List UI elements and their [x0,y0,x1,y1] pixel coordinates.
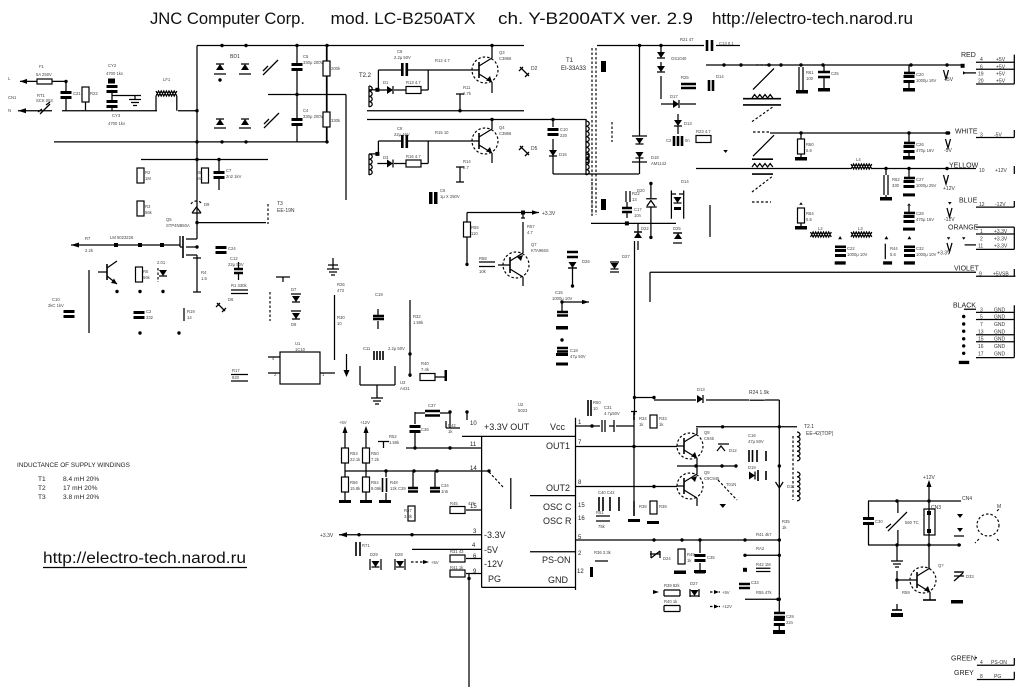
svg-text:BLACK: BLACK [953,303,976,310]
svg-text:10: 10 [470,421,477,427]
svg-text:GREEN: GREEN [951,656,976,663]
svg-text:D3: D3 [383,155,389,160]
svg-text:10: 10 [979,168,985,174]
connector WHITE -5V [955,129,1014,139]
svg-text:R42 1M: R42 1M [756,562,771,567]
svg-text:C29: C29 [786,614,794,619]
svg-text:1000μ 10V: 1000μ 10V [552,296,573,301]
svg-text:D1: D1 [383,80,389,85]
svg-text:6: 6 [980,64,983,70]
svg-text:22.1k: 22.1k [350,457,361,462]
svg-text:INDUCTANCE OF SUPPLY WINDINGS: INDUCTANCE OF SUPPLY WINDINGS [17,462,130,469]
wire fan bottom [868,544,961,546]
diode D20 [637,182,657,239]
svg-text:330: 330 [892,183,900,188]
zener D9 [191,201,210,213]
svg-text:U2: U2 [518,402,524,407]
svg-text:C21: C21 [73,91,81,96]
capacitor C5 330u 200V [292,44,324,96]
svg-text:20: 20 [978,79,984,85]
connector GREY PG [954,670,1014,680]
resistor R47 3.3k [404,506,415,521]
svg-text:LM 5023226: LM 5023226 [110,235,134,240]
resistor R34 1k [631,412,647,428]
capacitor C39 [398,471,418,492]
svg-text:4.7μ50V: 4.7μ50V [604,411,620,416]
resistor R39b 82k [653,583,681,596]
resistor R50 7.2k [363,440,380,463]
wire thermistor gnd [891,545,903,567]
capacitor C30 [863,501,883,545]
capacitor CY2 [106,63,124,93]
connector YELLOW +12V [949,163,1014,175]
resistor R33 1k [650,415,667,428]
svg-text:OSC C: OSC C [543,502,572,512]
capacitor C32 1000u 10V [904,246,937,265]
svg-text:16: 16 [978,344,984,350]
svg-text:2n2 1kV: 2n2 1kV [226,174,242,179]
svg-text:1M: 1M [145,176,151,181]
resistor R54 8.06 [363,477,383,500]
diode D27 [610,254,630,272]
svg-text:D24: D24 [663,556,671,561]
svg-text:56k: 56k [143,275,151,280]
svg-text:R61: R61 [806,70,814,75]
capacitor C27 1000u 25V [903,169,937,197]
diode D7 [291,287,301,302]
svg-text:14: 14 [187,315,192,320]
svg-text:56k: 56k [145,210,153,215]
resistor R31 [450,549,482,562]
svg-text:CY2: CY2 [108,63,117,68]
svg-text:9: 9 [979,271,982,277]
svg-text:T3: T3 [277,201,283,207]
svg-text:T3: T3 [38,494,46,501]
svg-text:15.8k: 15.8k [350,486,361,491]
rail +5VSB violet [650,272,976,302]
svg-text:470μ 16V: 470μ 16V [916,217,934,222]
svg-text:R57: R57 [527,224,535,229]
svg-text:13: 13 [978,330,984,336]
capacitor C15 1000u 10V [552,284,589,329]
svg-text:R31 43: R31 43 [450,549,464,554]
connector RED +5V [961,52,1015,85]
probe -12V [944,202,955,223]
capacitor C19 [373,292,384,329]
svg-text:R4: R4 [201,270,207,275]
resistor R12 [435,58,450,63]
svg-text:OUT1: OUT1 [546,441,570,451]
diode D17 [661,94,696,108]
resistor R17 820 [231,368,248,381]
svg-text:Q7: Q7 [531,242,537,247]
svg-text:PS-ON: PS-ON [991,660,1007,666]
capacitor C36 [410,425,430,448]
svg-text:L4: L4 [856,157,861,162]
diode D22 [634,223,649,250]
capacitor C12 22u 50V [228,256,244,280]
winding T3 sec [592,182,606,218]
svg-text:ORANGE: ORANGE [948,225,979,232]
resistor R25 [681,75,696,88]
svg-text:7: 7 [980,322,983,328]
svg-text:D13: D13 [684,121,692,126]
svg-text:CN1: CN1 [8,95,17,100]
wire top rail [197,45,524,47]
svg-text:8.06k: 8.06k [371,486,382,491]
svg-text:R48: R48 [390,480,398,485]
wire gate [71,244,180,246]
svg-text:D12: D12 [729,448,737,453]
svg-text:Q3: Q3 [499,50,505,55]
wire pin11 [406,447,482,449]
svg-text:R56: R56 [350,480,358,485]
svg-text:C8: C8 [397,126,403,131]
svg-text:1: 1 [980,229,983,235]
svg-text:C19: C19 [375,292,383,297]
svg-text:Q4: Q4 [499,125,505,130]
resistor R5 56k [136,267,151,282]
diode D11 [776,482,796,489]
svg-text:+3.3V: +3.3V [994,236,1008,242]
svg-text:R13 4.7: R13 4.7 [406,80,421,85]
diode D29 [370,552,381,570]
svg-text:AM1142: AM1142 [651,161,667,166]
node +3.3V sense [532,210,556,217]
svg-text:Q8: Q8 [704,430,710,435]
junction dots +12V rail [884,167,948,170]
resistor R15 [435,130,449,135]
diode D23 [291,311,301,327]
resistor R19 [184,308,195,321]
svg-text:D22: D22 [641,226,649,231]
capacitor C17 10n [622,202,642,218]
svg-text:C15: C15 [555,290,563,295]
connector BLUE -12V [959,198,1014,209]
resistor network RA2 [743,546,781,557]
junction arrows orange [838,236,911,239]
resistor R55 11 [464,213,480,265]
svg-text:+3.3V: +3.3V [320,533,334,539]
svg-text:+3.3V: +3.3V [542,211,556,217]
transistor Q7 KTA966S [498,222,549,286]
marks CN4 pins [954,514,964,536]
capacitor C18 47u 50V [556,338,586,365]
capacitor C25 [818,65,839,92]
svg-text:R3: R3 [145,204,151,209]
svg-text:LF1: LF1 [163,77,171,82]
svg-text:RED: RED [961,52,976,59]
svg-text:OUT2: OUT2 [546,483,570,493]
svg-text:11: 11 [470,442,477,448]
svg-text:GND: GND [994,322,1006,328]
resistor R35 1k [782,519,790,530]
svg-text:+5V: +5V [722,590,730,595]
svg-text:R33: R33 [659,416,667,421]
svg-text:D29: D29 [370,552,378,557]
arrow mark [344,354,350,377]
svg-text:BD1: BD1 [230,54,240,60]
svg-text:D11: D11 [787,484,795,489]
pin1 wire + capacitor C35 [576,420,635,432]
diode D1 [377,80,406,94]
svg-text:8.4 mH 20%: 8.4 mH 20% [63,476,99,483]
connector ORANGE +3.3V [948,225,1014,250]
rail -5V [770,132,949,134]
probe +12V fan [923,475,935,501]
svg-text:GND: GND [994,308,1006,314]
svg-text:Q5: Q5 [166,217,172,222]
svg-text:3: 3 [980,133,983,139]
svg-text:L2: L2 [818,226,823,231]
resistor R64 5.6 [795,202,814,229]
transistor T01N dashes [718,480,737,508]
wire divider row [345,463,490,477]
svg-text:http://electro-tech.narod.ru: http://electro-tech.narod.ru [43,550,246,567]
probe +5V [944,70,954,83]
ground bars mid [674,563,705,574]
dashed net arrows [411,560,439,565]
zener D30 [650,551,671,561]
svg-text:R38: R38 [639,504,647,509]
svg-text:4700 1kv: 4700 1kv [106,71,124,76]
capacitor C41 [356,542,370,556]
transistor Q9 C945 [677,466,720,506]
rail +12V yellow [696,168,976,170]
diode D3 [377,155,406,168]
svg-text:D27: D27 [690,581,698,586]
wire drain to T3 [197,222,266,224]
svg-text:GS1040: GS1040 [671,56,687,61]
svg-text:U3: U3 [400,380,406,385]
resistor R33 7.4k [420,361,447,381]
rectifier block +12V [723,132,774,174]
resistor R9 200k [323,46,341,95]
svg-text:GND: GND [994,330,1006,336]
svg-text:2.01: 2.01 [157,260,166,265]
svg-text:R34: R34 [639,416,647,421]
svg-text:C6: C6 [440,188,446,193]
svg-text:C36: C36 [421,427,429,432]
svg-text:1000μ 25V: 1000μ 25V [916,183,937,188]
wire pin4 -5V [412,548,482,550]
svg-text:-12V: -12V [484,559,503,569]
svg-text:R2: R2 [145,170,151,175]
resistor R16 [406,141,428,167]
resistor R14 2.7 [456,159,471,182]
resistor R4 1.5 [193,258,207,292]
svg-text:R21 47: R21 47 [680,37,694,42]
wire pin3 -3.3V [320,532,482,539]
svg-text:2.7: 2.7 [463,165,469,170]
svg-text:C13 0.1: C13 0.1 [719,41,734,46]
resistor R30 10 [335,295,346,360]
resistor R11 2.7k [456,85,472,112]
svg-text:A431: A431 [400,386,410,391]
ground for CY caps [112,96,141,106]
svg-text:Q?: Q? [938,563,944,568]
svg-text:5A 250V: 5A 250V [36,72,52,77]
resistor R53 22.1k [342,440,362,463]
capacitor C7 2n2 1kV [214,158,242,190]
label U2 5023 [518,402,528,413]
svg-text:C40 C42: C40 C42 [598,490,615,495]
capacitor C23 [666,136,690,146]
svg-text:D19: D19 [748,465,756,470]
svg-text:R47: R47 [404,508,412,513]
capacitor C30b 22n [773,570,794,634]
resistor network RA1 [756,532,772,537]
diode D13 [697,387,705,403]
resistor R26 473 [337,282,345,293]
svg-text:N: N [8,108,11,113]
svg-text:R42: R42 [448,423,456,428]
svg-text:R51: R51 [596,510,604,515]
resistor R6 330k [231,283,248,294]
resistor R13 [406,70,428,94]
svg-text:+5V: +5V [339,420,347,425]
transformer T2.1 [793,424,834,501]
resistor R42 1k [446,421,460,434]
probe -5V [944,131,952,154]
svg-text:R60: R60 [806,142,814,147]
ground bars ps-on [674,570,706,574]
svg-text:C37: C37 [428,403,436,408]
resistor R56 15.8k [342,477,362,500]
capacitor C16 [216,246,237,254]
svg-text:GND: GND [994,337,1006,343]
svg-text:BLUE: BLUE [959,198,978,205]
capacitor C11 2.2u 50V [363,346,405,360]
wire 5VSB sec [591,222,676,224]
capacitor C3 2kC 1kV [48,297,75,318]
svg-text:R52: R52 [389,434,397,439]
rail +5V [706,64,963,66]
wire sbv vertical [634,241,636,415]
wire bulk cap mid [268,94,346,96]
probe +12V arrow [360,420,370,440]
svg-text:R24 1.9k: R24 1.9k [749,390,770,396]
capacitor C22 1000u 10V [835,246,868,265]
probe +12V [943,175,955,192]
svg-text:R15 10: R15 10 [435,130,449,135]
ground R59 [891,604,903,617]
resistor R23 4.7 [696,129,711,143]
diode D18 AM1142 [632,136,667,174]
svg-text:D15: D15 [559,152,567,157]
svg-text:R62: R62 [892,177,900,182]
svg-text:12: 12 [577,569,584,575]
svg-text:PG: PG [488,574,501,584]
svg-text:+3.3V: +3.3V [994,244,1008,250]
svg-text:GND: GND [548,575,569,585]
svg-text:100: 100 [806,76,814,81]
wire to T2.1 base [745,598,779,600]
resistor R60 5.6 [795,133,814,161]
svg-text:+12V: +12V [995,168,1007,174]
svg-text:+12V: +12V [722,604,732,609]
capacitor C40 cluster [598,490,619,511]
svg-text:+5V: +5V [996,79,1006,85]
svg-text:R39 82k: R39 82k [664,583,681,588]
svg-text:17 mH 20%: 17 mH 20% [63,485,98,492]
svg-text:C2: C2 [146,309,152,314]
resistor R2 [137,168,151,183]
svg-text:1000μ 16V: 1000μ 16V [916,78,937,83]
svg-text:1.5: 1.5 [201,276,207,281]
svg-text:T01N: T01N [726,482,736,487]
svg-text:2.2μ 50V: 2.2μ 50V [394,55,411,60]
svg-text:1.50k: 1.50k [413,320,424,325]
capacitor C38 [383,471,399,500]
svg-text:-5V: -5V [484,545,498,555]
svg-text:D6: D6 [228,297,234,302]
svg-text:R55: R55 [471,225,479,230]
fuse F1 [36,64,52,84]
svg-text:47μ 50V: 47μ 50V [570,354,586,359]
resistor R61 100 [796,67,814,94]
resistor R44 5.6 [883,244,898,265]
svg-text:C7: C7 [226,168,232,173]
svg-text:R16 4.7: R16 4.7 [406,154,421,159]
svg-text:D8: D8 [291,322,297,327]
svg-text:3.3k: 3.3k [404,514,413,519]
resistor R7 2.2 [85,236,94,253]
wire neutral [54,141,327,143]
svg-text:L3: L3 [858,226,863,231]
svg-text:D13: D13 [697,387,705,392]
wire vcc vertical [633,417,635,501]
svg-text:330μ 200V: 330μ 200V [303,114,324,119]
svg-text:22μ 50V: 22μ 50V [228,262,244,267]
IC body [470,418,585,590]
svg-text:T1: T1 [566,58,574,64]
svg-text:D33: D33 [966,574,974,579]
inductor L4 [851,157,872,169]
svg-text:ch. Y-B200ATX ver. 2.9: ch. Y-B200ATX ver. 2.9 [498,9,693,28]
resistor R3 [137,201,153,216]
svg-text:4: 4 [980,660,983,666]
wire T2.1 left [778,400,780,570]
svg-text:C32: C32 [916,246,924,251]
svg-text:GND: GND [994,344,1006,350]
svg-text:R44: R44 [890,246,898,251]
resistor network RA3 [743,562,771,572]
resistor R36 3.3k [594,550,612,561]
svg-text:7.2k: 7.2k [371,457,380,462]
svg-text:C26: C26 [916,142,924,147]
capacitor C20 1000u 16V [903,65,937,92]
svg-text:VIOLET: VIOLET [954,266,980,273]
svg-text:EE-42(TOP): EE-42(TOP) [806,431,834,437]
junction arrows [115,290,118,293]
svg-text:CY3: CY3 [112,113,121,118]
transformer T1 [561,48,612,215]
svg-text:D26: D26 [582,259,590,264]
svg-text:D18: D18 [651,155,659,160]
svg-text:2.7k: 2.7k [463,91,472,96]
svg-text:C9: C9 [397,49,403,54]
optocoupler U1 [268,341,335,384]
svg-text:Q9: Q9 [704,470,710,475]
svg-text:C10: C10 [560,127,568,132]
wire 3v3 top row [415,412,467,428]
svg-text:110: 110 [471,231,478,236]
svg-text:R22: R22 [90,91,98,96]
svg-text:R11: R11 [463,85,471,90]
svg-text:C3866: C3866 [499,56,512,61]
diode D13b [674,114,692,134]
